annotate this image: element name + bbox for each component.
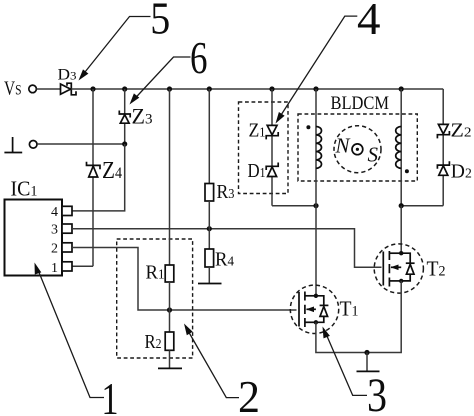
svg-text:D3: D3 [58,67,77,84]
resistor R1 [146,89,174,284]
diode D1 [248,160,279,182]
svg-text:3: 3 [51,223,58,238]
transistor T2 [374,244,445,293]
label 4 leader [276,0,381,124]
svg-text:3: 3 [367,369,387,416]
pin 1 of IC1 [51,261,72,276]
svg-text:1: 1 [51,261,58,276]
wire pin1 to Z4 line [72,265,93,267]
wire Z1D1 bottom to motor left node [272,205,316,207]
svg-text:2: 2 [238,371,260,416]
svg-text:6: 6 [190,33,208,83]
resistor R4 [205,249,234,271]
zener Z3 [119,89,152,144]
wire Z2D2 bottom to motor right node [401,205,443,207]
IC IC1 [5,177,63,276]
wire R3 to R4 [208,201,210,249]
ground at bottom rail [357,350,380,372]
ground under R2 [158,350,182,368]
node junction dots on top rail [90,86,95,91]
wire pin3 run to T2 gate [72,229,382,268]
label 5 leader [79,0,171,81]
wire motor right node down to T2 [400,206,402,254]
svg-text:5: 5 [150,0,170,44]
label 3 leader [323,327,388,416]
zener Z1 [249,120,279,142]
wire top rail down through Z1 D1 [271,89,273,206]
svg-text:4: 4 [51,205,58,220]
resistor R2 [145,331,174,353]
svg-text:N: N [335,134,351,158]
wire top rail [71,88,443,90]
motor dashed box [298,114,417,181]
ground under R4 [198,267,222,284]
wire gnd node down to pin4 [72,144,125,211]
motor left winding [306,89,321,206]
wire Vs to D3 [37,88,61,90]
zener Z4 [87,89,123,266]
diode D2 [437,161,471,183]
terminal Vs [4,78,36,100]
diode D3 [58,67,77,95]
svg-text:4: 4 [357,0,381,44]
transistor T1 [290,285,358,333]
pin 4 of IC1 [51,205,72,220]
pin 3 of IC1 [51,223,72,238]
wire top rail right corner down Z2 D2 chain [442,89,444,206]
motor rotor [334,126,381,173]
wire pin2 run to T1 gate [72,248,297,311]
resistor R3 [205,89,235,203]
dashed box 4 around Z1 D1 [239,102,289,194]
zener Z2 [437,120,471,142]
label 2 leader [184,324,260,416]
svg-text:S: S [368,143,379,167]
label 1 leader [35,263,119,416]
label 6 leader [130,33,208,105]
wire T1 source down and bottom rail [316,281,401,353]
svg-text:1: 1 [102,373,119,416]
motor right winding [396,89,409,206]
svg-text:BLDCM: BLDCM [331,93,390,114]
ground input terminal [4,137,127,153]
wire motor left node down to T1 [315,206,317,296]
wire R1 to R2 [169,282,171,332]
pin 2 of IC1 [51,242,72,257]
svg-text:2: 2 [51,242,58,257]
dashed box 2 around R1 R2 [117,239,193,358]
